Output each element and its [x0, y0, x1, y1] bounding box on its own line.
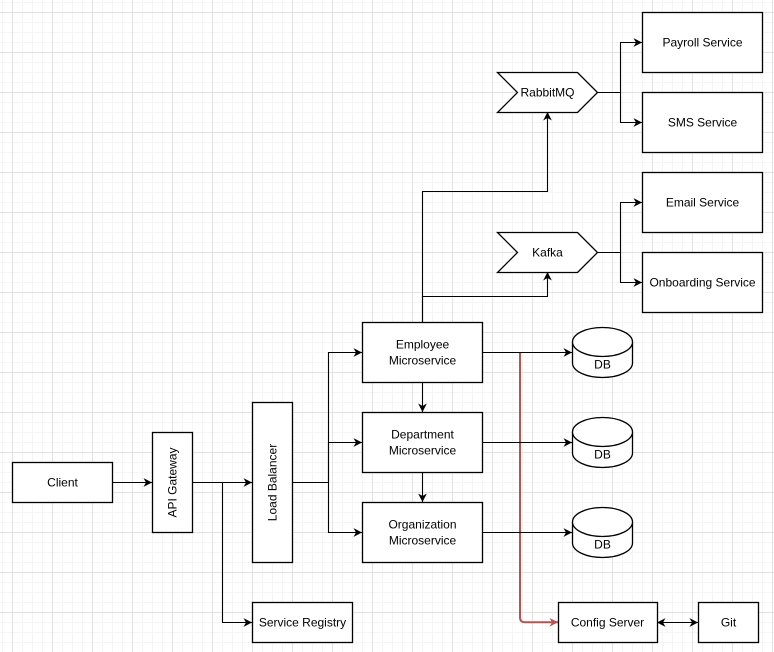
svg-text:Email Service: Email Service [666, 196, 740, 210]
wire Client to API Gateway [112, 482, 152, 484]
svg-text:DB: DB [594, 358, 611, 372]
svg-text:RabbitMQ: RabbitMQ [520, 86, 574, 100]
box Employee Microservice [363, 323, 483, 383]
box Email Service [643, 173, 763, 233]
svg-text:Organization: Organization [388, 518, 456, 532]
wire RabbitMQ to SMS Service [621, 93, 643, 123]
box Config Server [559, 603, 658, 643]
svg-text:Client: Client [47, 476, 78, 490]
box Git [699, 603, 759, 643]
svg-text:Config Server: Config Server [571, 616, 644, 630]
box Payroll Service [643, 13, 763, 73]
step Kafka [498, 233, 598, 273]
svg-text:SMS Service: SMS Service [668, 116, 738, 130]
cylinder DB1 [573, 328, 633, 378]
svg-text:Onboarding Service: Onboarding Service [649, 276, 755, 290]
svg-text:Microservice: Microservice [389, 534, 457, 548]
svg-text:DB: DB [594, 538, 611, 552]
svg-text:Payroll Service: Payroll Service [662, 36, 742, 50]
wire Kafka to Onboarding Service [621, 253, 643, 283]
box Onboarding Service [643, 253, 763, 313]
svg-text:Load Balancer: Load Balancer [266, 444, 280, 521]
svg-text:Kafka: Kafka [532, 246, 563, 260]
wire Load Balancer to Organization Microservice [329, 483, 363, 533]
cylinder DB2 [573, 418, 633, 468]
svg-text:API Gateway: API Gateway [166, 447, 180, 517]
svg-text:Microservice: Microservice [389, 444, 457, 458]
box Organization Microservice [363, 503, 483, 563]
box SMS Service [643, 93, 763, 153]
svg-text:Git: Git [721, 616, 737, 630]
svg-text:DB: DB [594, 448, 611, 462]
wire API Gateway to Service Registry [223, 483, 253, 623]
wire Department Microservice to Organization Microservice [422, 472, 424, 502]
box API Gateway [153, 433, 193, 533]
wire Employee Microservice to Kafka [423, 272, 548, 322]
box Department Microservice [363, 413, 483, 473]
wire Organization Microservice to DB3 [482, 532, 572, 534]
step RabbitMQ [498, 73, 598, 113]
svg-text:Service Registry: Service Registry [259, 616, 346, 630]
svg-text:Employee: Employee [396, 338, 450, 352]
wire API Gateway to Load Balancer [192, 482, 252, 484]
wire Employee Microservice to Config Server (red) [520, 353, 558, 623]
wire Config Server to Git (double arrow) [657, 622, 698, 624]
box Load Balancer [253, 403, 293, 563]
box Service Registry [253, 603, 353, 643]
cylinder DB3 [573, 508, 633, 558]
wire RabbitMQ to Payroll Service [597, 43, 642, 93]
svg-text:Microservice: Microservice [389, 354, 457, 368]
wire Department Microservice to DB2 [482, 442, 572, 444]
wire Kafka to Email Service [597, 203, 642, 253]
box Client [13, 463, 113, 503]
wire Employee Microservice to Department Microservice [422, 382, 424, 412]
wire Employee Microservice to RabbitMQ [423, 112, 548, 322]
wire Load Balancer to Department Microservice [329, 443, 363, 483]
svg-text:Department: Department [391, 428, 454, 442]
wire Load Balancer to Employee Microservice [292, 353, 362, 483]
wire Employee Microservice to DB1 [482, 352, 572, 354]
